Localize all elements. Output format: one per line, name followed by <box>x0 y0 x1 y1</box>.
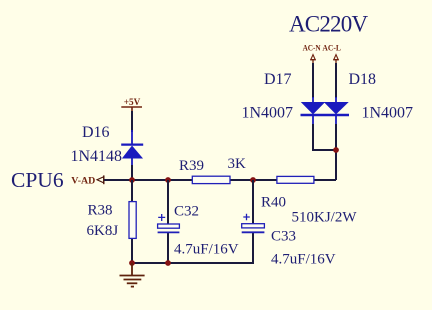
junction main rail at D16/R38 <box>129 177 135 183</box>
wire from AC-N arrow to D17 <box>312 63 314 98</box>
diode D17 <box>302 97 325 125</box>
svg-text:510KJ/2W: 510KJ/2W <box>292 210 358 226</box>
svg-text:AC-N: AC-N <box>303 44 321 53</box>
svg-text:D17: D17 <box>264 71 292 88</box>
junction diode output <box>333 147 339 153</box>
wire from AC-L arrow to D18 <box>335 63 337 98</box>
wire R39 to R40 <box>229 179 278 181</box>
ground <box>120 263 145 287</box>
resistor R40 <box>277 176 314 183</box>
junction bottom rail at C32 <box>165 260 171 266</box>
svg-text:4.7uF/16V: 4.7uF/16V <box>174 242 239 258</box>
port arrow AC-N <box>310 55 316 64</box>
bottom rail <box>132 262 253 264</box>
svg-text:CPU6: CPU6 <box>11 168 64 192</box>
diode D18 <box>325 97 349 125</box>
svg-text:1N4007: 1N4007 <box>242 105 294 122</box>
junction main rail at C33/R40 <box>250 177 256 183</box>
svg-text:1N4007: 1N4007 <box>362 105 414 122</box>
wire D17 cathode down <box>312 124 314 150</box>
wire D17 to junction <box>312 149 336 151</box>
port arrow AC-L <box>333 55 339 64</box>
wire C33 branch lower <box>252 232 254 264</box>
resistor R38 <box>129 202 136 239</box>
svg-text:D16: D16 <box>82 124 110 141</box>
junction bottom rail at ground <box>129 260 135 266</box>
wire D16 to main rail <box>131 165 133 180</box>
svg-text:AC-L: AC-L <box>322 44 341 53</box>
svg-text:R40: R40 <box>261 195 286 211</box>
svg-text:C32: C32 <box>174 204 199 220</box>
capacitor C32 <box>158 214 180 232</box>
svg-text:C33: C33 <box>271 229 296 245</box>
wire C32 branch upper <box>167 180 169 225</box>
svg-text:1N4148: 1N4148 <box>71 148 123 165</box>
svg-text:AC220V: AC220V <box>289 12 368 37</box>
svg-text:6K8J: 6K8J <box>87 223 119 239</box>
diode D16 <box>121 130 143 166</box>
wire C32 branch lower <box>167 232 169 263</box>
svg-text:4.7uF/16V: 4.7uF/16V <box>271 252 336 268</box>
junction main rail at C32 <box>165 177 171 183</box>
wire C33 branch upper <box>252 180 254 224</box>
svg-text:D18: D18 <box>349 71 377 88</box>
cathode bar D17/D18 <box>301 114 350 117</box>
wire D18 cathode down to main rail <box>335 124 337 180</box>
main wire V-AD rail <box>104 179 193 181</box>
power +5V bar <box>121 106 142 108</box>
resistor R39 <box>192 176 230 183</box>
wire R40 to diode branch <box>313 179 336 181</box>
wire R38 branch <box>131 180 133 263</box>
wire +5V to D16 <box>131 111 133 132</box>
svg-text:3K: 3K <box>228 156 247 172</box>
port arrow V-AD <box>97 175 104 184</box>
capacitor C33 <box>242 214 265 233</box>
svg-text:R38: R38 <box>88 203 113 219</box>
svg-text:V-AD: V-AD <box>71 176 96 186</box>
svg-text:R39: R39 <box>179 158 204 174</box>
